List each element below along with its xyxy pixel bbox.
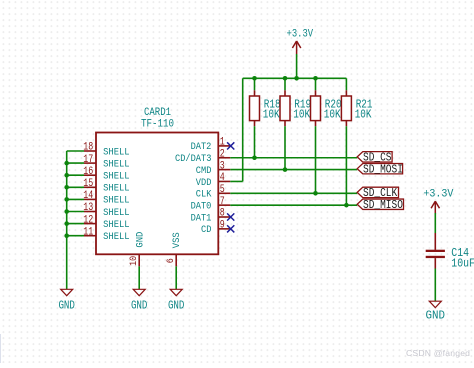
pin 14 SHELL [83, 190, 129, 207]
pin stub bottom R19 [284, 121, 286, 127]
junction R20 on bus [313, 76, 318, 81]
pin stub top R20 [315, 90, 317, 96]
wire R20 down to signal [315, 126, 317, 193]
svg-text:SHELL: SHELL [103, 171, 130, 183]
ground GND pin10 [131, 289, 148, 312]
svg-text:+3.3V: +3.3V [423, 188, 453, 200]
svg-text:GND: GND [426, 309, 446, 322]
pin stub top C14 [434, 233, 436, 250]
svg-text:2: 2 [220, 148, 225, 160]
junction at SHELL bus row 17 [64, 161, 69, 166]
svg-text:SHELL: SHELL [103, 219, 130, 231]
pin 3 CMD [196, 160, 231, 177]
pin 7 DAT0 [191, 196, 231, 213]
pin 17 SHELL [83, 154, 129, 171]
svg-text:CLK: CLK [196, 189, 212, 201]
wire to pin 13 [67, 211, 84, 213]
wire left SHELL bus vertical [66, 151, 68, 289]
junction R20 to signal wire [313, 191, 318, 196]
svg-text:SHELL: SHELL [103, 183, 130, 195]
svg-text:SD_MISO: SD_MISO [363, 199, 403, 212]
svg-text:10K: 10K [355, 108, 372, 121]
pin 10 GND [128, 232, 147, 267]
svg-text:SHELL: SHELL [103, 195, 130, 207]
wire R18 down to signal [254, 126, 256, 158]
svg-text:13: 13 [83, 202, 93, 214]
pin stub top R19 [284, 90, 286, 96]
svg-text:10uF: 10uF [451, 257, 474, 271]
svg-text:10K: 10K [293, 108, 310, 121]
junction at SHELL bus row 15 [64, 185, 69, 190]
wire C14 to ground [434, 269, 436, 302]
wire to pin 17 [67, 162, 84, 164]
svg-text:10: 10 [128, 256, 140, 266]
svg-text:3: 3 [220, 160, 225, 172]
ground GND right [426, 301, 446, 322]
pin 15 SHELL [83, 178, 129, 195]
junction at SHELL bus row 16 [64, 173, 69, 178]
resistor R18 10K [250, 96, 281, 121]
wire bus to R21 [345, 78, 347, 90]
svg-text:+3.3V: +3.3V [287, 29, 314, 41]
pin 8 DAT1 [191, 208, 231, 225]
wire to pin 16 [67, 174, 84, 176]
svg-text:CD/DAT3: CD/DAT3 [175, 153, 211, 165]
svg-text:GND: GND [168, 300, 185, 313]
svg-text:GND: GND [58, 300, 75, 313]
resistor R21 10K [341, 96, 372, 121]
pin 1 DAT2 [191, 137, 231, 154]
wire bus to R18 [254, 78, 256, 90]
wire pin 7 to SD_MISO [230, 204, 357, 206]
wire +3.3V top bus [243, 77, 347, 79]
wire bus to R20 [315, 78, 317, 90]
pin 5 CLK [196, 184, 231, 201]
svg-text:SHELL: SHELL [103, 231, 130, 243]
wire to pin 11 [67, 235, 84, 237]
svg-text:18: 18 [83, 142, 93, 154]
svg-text:GND: GND [135, 232, 147, 248]
wire R19 down to signal [284, 126, 286, 169]
svg-text:DAT2: DAT2 [191, 141, 212, 153]
pin stub top R21 [345, 90, 347, 96]
pin 16 SHELL [83, 166, 129, 183]
junction at SHELL bus row 11 [64, 233, 69, 238]
pin 18 SHELL [83, 142, 129, 159]
svg-text:16: 16 [83, 166, 93, 178]
capacitor C14 10uF [426, 246, 474, 271]
resistor R20 10K [311, 96, 342, 121]
svg-text:1: 1 [220, 137, 225, 149]
wire R21 down to signal [345, 126, 347, 205]
svg-text:SHELL: SHELL [103, 146, 130, 158]
power +3.3V top [296, 54, 298, 78]
power +3.3V right [423, 188, 453, 214]
pin stub bottom R21 [345, 121, 347, 127]
svg-text:6: 6 [165, 258, 177, 263]
svg-text:CARD1: CARD1 [144, 107, 171, 119]
global label SD_CLK [357, 187, 398, 200]
pin 9 CD [201, 220, 230, 237]
svg-text:5: 5 [220, 184, 225, 196]
pin 2 CD/DAT3 [175, 148, 230, 165]
junction R18 to signal wire [252, 155, 257, 160]
wire VDD horizontal to pin 4 [230, 180, 242, 182]
svg-text:SHELL: SHELL [103, 207, 130, 219]
svg-text:11: 11 [83, 226, 93, 238]
pin 11 SHELL [83, 226, 129, 243]
svg-text:GND: GND [131, 300, 148, 313]
svg-text:SD_MOSI: SD_MOSI [363, 163, 403, 176]
junction at SHELL bus row 14 [64, 197, 69, 202]
svg-text:VDD: VDD [196, 177, 212, 189]
pin 4 VDD [196, 172, 231, 189]
pin stub bottom C14 [434, 258, 436, 268]
wire pin 5 to SD_CLK [230, 192, 357, 194]
pin 13 SHELL [83, 202, 129, 219]
svg-text:DAT1: DAT1 [191, 212, 212, 224]
svg-text:9: 9 [220, 220, 225, 232]
connector CARD1 TF-110 body [96, 133, 218, 255]
svg-text:15: 15 [83, 178, 93, 190]
junction at SHELL bus row 12 [64, 221, 69, 226]
global label SD_MISO [357, 199, 403, 212]
wire to pin 12 [67, 223, 84, 225]
junction R19 on bus [283, 76, 288, 81]
svg-text:8: 8 [220, 208, 225, 220]
wire VDD drop [242, 78, 244, 181]
svg-text:14: 14 [83, 190, 93, 202]
svg-text:DAT0: DAT0 [191, 200, 212, 212]
wire pin 3 to SD_MOSI [230, 169, 357, 171]
svg-text:7: 7 [220, 196, 225, 208]
pin stub bottom R18 [254, 121, 256, 127]
svg-text:CMD: CMD [196, 165, 212, 177]
junction R18 on bus [252, 76, 257, 81]
resistor R19 10K [280, 96, 311, 121]
svg-text:10K: 10K [263, 108, 280, 121]
wire pin10 to ground [138, 266, 140, 289]
wire pin6 to ground [175, 266, 177, 289]
ground GND left [58, 289, 75, 312]
svg-text:4: 4 [220, 172, 225, 184]
wire to pin 18 [67, 150, 84, 152]
pin stub bottom R20 [315, 121, 317, 127]
wire bus to R19 [284, 78, 286, 90]
wire to pin 14 [67, 198, 84, 200]
svg-text:SHELL: SHELL [103, 158, 130, 170]
no-connect X pin 8 [227, 213, 234, 220]
junction R21 to signal wire [344, 203, 349, 208]
junction power stem on bus [294, 76, 299, 81]
global label SD_CS [357, 151, 392, 164]
no-connect X pin 9 [227, 225, 234, 232]
svg-text:VSS: VSS [171, 232, 183, 248]
svg-text:CD: CD [201, 224, 211, 236]
junction R19 to signal wire [283, 167, 288, 172]
no-connect X pin 1 [227, 142, 234, 149]
junction at SHELL bus row 13 [64, 209, 69, 214]
pin 6 VSS [165, 232, 183, 266]
wire +3.3V to C14 [434, 213, 436, 233]
ground GND pin6 [168, 289, 185, 312]
left edge artifact [0, 334, 1, 363]
watermark [406, 348, 470, 358]
pin 12 SHELL [83, 214, 129, 231]
wire to pin 15 [67, 186, 84, 188]
pin stub top R18 [254, 90, 256, 96]
svg-text:TF-110: TF-110 [141, 118, 174, 130]
svg-text:10K: 10K [324, 108, 341, 121]
svg-text:17: 17 [83, 154, 93, 166]
svg-text:12: 12 [83, 214, 93, 226]
wire pin 2 to SD_CS [230, 157, 357, 159]
global label SD_MOSI [357, 163, 403, 176]
